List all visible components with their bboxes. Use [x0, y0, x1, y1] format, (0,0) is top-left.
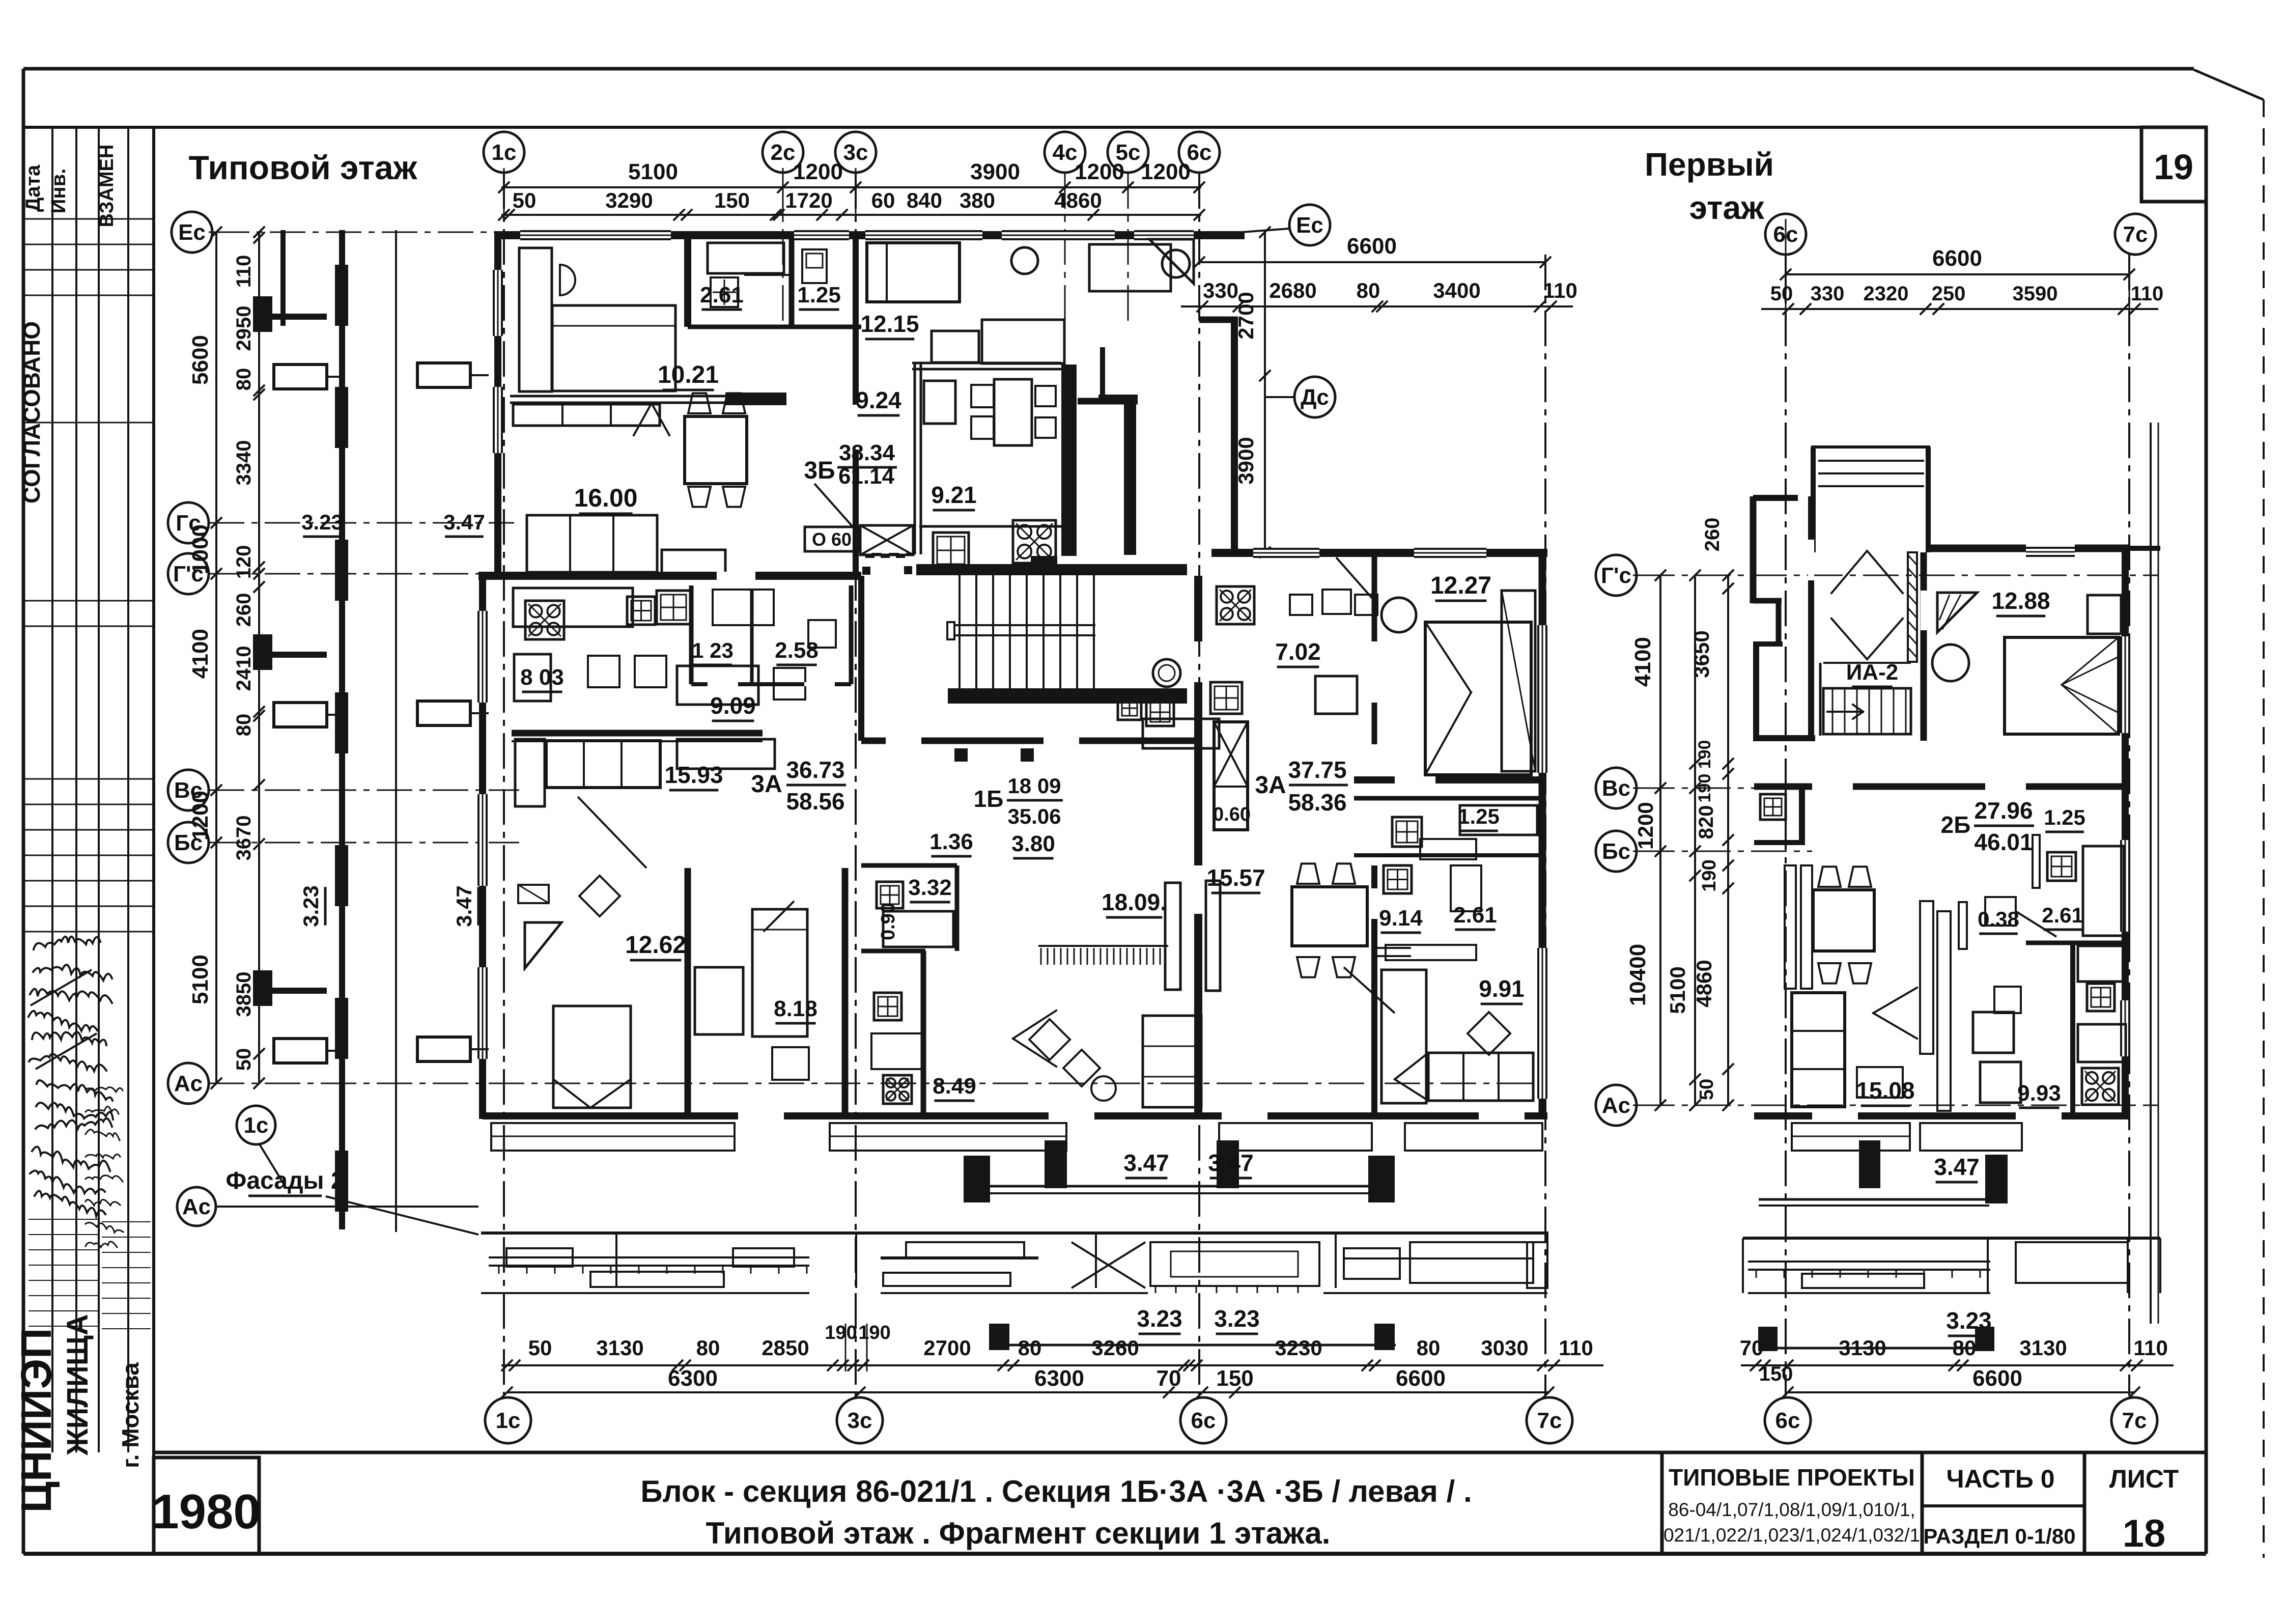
svg-text:Ac: Ac: [174, 1071, 203, 1096]
svg-text:1720: 1720: [785, 188, 832, 212]
svg-text:3.47: 3.47: [443, 510, 485, 534]
svg-text:58.56: 58.56: [786, 788, 844, 815]
svg-text:9.93: 9.93: [2017, 1081, 2061, 1106]
svg-text:110: 110: [1559, 1336, 1593, 1360]
svg-text:330: 330: [1811, 283, 1845, 305]
svg-text:12.15: 12.15: [860, 311, 919, 337]
svg-text:5100: 5100: [1666, 966, 1689, 1014]
svg-text:2.58: 2.58: [775, 638, 819, 663]
svg-text:2.61: 2.61: [1453, 903, 1497, 928]
svg-text:Г'c: Г'c: [1601, 563, 1631, 588]
svg-text:50: 50: [528, 1336, 552, 1360]
svg-text:120: 120: [233, 545, 255, 579]
svg-text:19: 19: [2154, 147, 2193, 187]
svg-text:820: 820: [1695, 805, 1717, 839]
svg-text:86-04/1,07/1,08/1,09/1,010/1,: 86-04/1,07/1,08/1,09/1,010/1,: [1668, 1499, 1915, 1520]
svg-text:2320: 2320: [1864, 283, 1909, 305]
svg-text:3650: 3650: [1689, 630, 1713, 678]
svg-text:2.61: 2.61: [700, 283, 744, 307]
svg-text:ЖИЛИЩА: ЖИЛИЩА: [61, 1314, 94, 1455]
svg-text:46.01: 46.01: [1974, 829, 2033, 855]
svg-text:12.88: 12.88: [1991, 587, 2050, 614]
svg-text:ЛИСТ: ЛИСТ: [2109, 1465, 2179, 1493]
svg-text:6600: 6600: [1347, 234, 1397, 259]
svg-text:2.61: 2.61: [2042, 903, 2083, 927]
svg-text:6600: 6600: [1396, 1366, 1446, 1391]
svg-text:1Б: 1Б: [974, 786, 1004, 812]
svg-text:12.27: 12.27: [1430, 572, 1491, 599]
svg-text:3130: 3130: [2019, 1336, 2067, 1360]
svg-text:1.36: 1.36: [929, 829, 973, 854]
svg-text:9.21: 9.21: [931, 482, 977, 508]
svg-text:1 23: 1 23: [692, 638, 734, 662]
svg-text:1.25: 1.25: [2044, 805, 2085, 829]
svg-text:250: 250: [1932, 283, 1966, 305]
svg-text:6600: 6600: [1972, 1366, 2022, 1391]
svg-text:1980: 1980: [152, 1485, 261, 1539]
svg-text:Дата: Дата: [22, 164, 44, 212]
svg-text:60: 60: [871, 188, 895, 212]
svg-text:150: 150: [1759, 1363, 1793, 1385]
svg-text:Ac: Ac: [182, 1194, 211, 1219]
svg-text:1.25: 1.25: [1458, 804, 1500, 828]
svg-text:0.38: 0.38: [1978, 907, 2019, 931]
svg-text:7c: 7c: [2123, 222, 2148, 247]
svg-text:6300: 6300: [1034, 1366, 1084, 1391]
svg-text:15.08: 15.08: [1856, 1077, 1914, 1104]
svg-text:3А: 3А: [1255, 772, 1286, 799]
svg-text:15.93: 15.93: [664, 762, 723, 788]
svg-text:Бc: Бc: [1602, 839, 1630, 864]
svg-text:80: 80: [1417, 1336, 1441, 1360]
svg-text:8.49: 8.49: [933, 1074, 976, 1099]
svg-text:9.91: 9.91: [1479, 975, 1525, 1002]
svg-text:330: 330: [1203, 278, 1238, 302]
svg-text:4860: 4860: [1054, 188, 1102, 212]
svg-text:70: 70: [1157, 1366, 1181, 1391]
svg-text:18 09: 18 09: [1007, 774, 1061, 798]
svg-text:3030: 3030: [1481, 1336, 1528, 1360]
svg-text:18.09.: 18.09.: [1102, 889, 1167, 915]
svg-text:3Б: 3Б: [804, 457, 835, 484]
svg-text:27.96: 27.96: [1974, 797, 2033, 824]
svg-text:110: 110: [233, 255, 255, 288]
svg-text:2c: 2c: [771, 140, 796, 165]
svg-text:150: 150: [714, 188, 750, 212]
svg-text:260: 260: [233, 593, 255, 627]
svg-text:Инв.: Инв.: [47, 169, 70, 214]
svg-text:2Б: 2Б: [1941, 811, 1971, 838]
svg-text:1200: 1200: [793, 159, 843, 184]
svg-text:150: 150: [1216, 1366, 1253, 1391]
svg-text:3230: 3230: [1275, 1336, 1322, 1360]
svg-text:0.90: 0.90: [878, 903, 899, 940]
svg-text:110: 110: [2131, 283, 2164, 305]
svg-text:Ec: Ec: [178, 220, 206, 245]
svg-text:этаж: этаж: [1689, 189, 1764, 226]
svg-text:3А: 3А: [751, 771, 782, 798]
svg-text:РАЗДЕЛ 0-1/80: РАЗДЕЛ 0-1/80: [1923, 1524, 2075, 1548]
svg-text:ТИПОВЫЕ ПРОЕКТЫ: ТИПОВЫЕ ПРОЕКТЫ: [1669, 1464, 1915, 1491]
svg-text:2700: 2700: [923, 1336, 971, 1360]
svg-text:6600: 6600: [1932, 246, 1982, 271]
svg-text:10.21: 10.21: [658, 361, 719, 388]
svg-text:840: 840: [907, 188, 942, 212]
svg-text:3260: 3260: [1091, 1336, 1139, 1360]
svg-text:3.23: 3.23: [1214, 1305, 1260, 1332]
svg-text:1c: 1c: [492, 140, 517, 165]
svg-text:г. Москва: г. Москва: [117, 1362, 144, 1468]
svg-text:16.00: 16.00: [574, 484, 637, 512]
svg-text:5100: 5100: [188, 955, 213, 1004]
svg-text:3.47: 3.47: [1934, 1154, 1980, 1180]
svg-text:Вc: Вc: [1602, 776, 1630, 801]
svg-text:15.57: 15.57: [1206, 864, 1265, 891]
svg-text:110: 110: [1543, 278, 1577, 302]
svg-text:58.36: 58.36: [1288, 789, 1346, 816]
svg-text:80: 80: [696, 1336, 720, 1360]
svg-text:1200: 1200: [1075, 159, 1124, 184]
svg-text:3900: 3900: [970, 159, 1020, 184]
svg-text:190: 190: [825, 1322, 857, 1343]
svg-text:Фасады 2: Фасады 2: [225, 1167, 344, 1194]
svg-text:4100: 4100: [1630, 637, 1655, 687]
svg-text:50: 50: [1770, 283, 1793, 305]
svg-text:4860: 4860: [1692, 960, 1716, 1007]
svg-text:Дc: Дc: [1301, 385, 1329, 410]
svg-text:36.73: 36.73: [786, 757, 844, 783]
svg-text:ЦНИИЭП: ЦНИИЭП: [12, 1328, 60, 1513]
svg-text:ЧАСТЬ 0: ЧАСТЬ 0: [1946, 1465, 2054, 1493]
svg-text:Типовой этаж: Типовой этаж: [189, 149, 418, 186]
svg-text:3c: 3c: [848, 1408, 872, 1433]
svg-text:3.80: 3.80: [1011, 831, 1055, 856]
svg-text:38.34: 38.34: [839, 440, 895, 465]
svg-text:190: 190: [858, 1322, 890, 1343]
svg-text:3.47: 3.47: [1123, 1150, 1169, 1176]
svg-text:Первый: Первый: [1645, 146, 1774, 183]
svg-text:0.60: 0.60: [1213, 804, 1251, 825]
svg-text:9.14: 9.14: [1379, 906, 1423, 931]
svg-text:3.23: 3.23: [299, 885, 323, 927]
svg-text:3290: 3290: [605, 188, 653, 212]
svg-text:37.75: 37.75: [1288, 757, 1346, 783]
svg-text:3.32: 3.32: [908, 875, 952, 900]
svg-text:9.09: 9.09: [710, 692, 756, 719]
svg-text:СОГЛАСОВАНО: СОГЛАСОВАНО: [18, 321, 45, 503]
svg-text:2680: 2680: [1269, 278, 1316, 302]
svg-text:1200: 1200: [1633, 802, 1657, 849]
svg-text:1200: 1200: [1141, 159, 1191, 184]
svg-text:О 60: О 60: [812, 529, 852, 550]
svg-text:Блок - секция 86-021/1 . Се: Блок - секция 86-021/1 . Секция 1Б·3А ·3…: [640, 1474, 1472, 1508]
svg-text:021/1,022/1,023/1,024/1,032/1: 021/1,022/1,023/1,024/1,032/1: [1663, 1525, 1920, 1546]
svg-text:260: 260: [1701, 518, 1724, 552]
svg-text:7c: 7c: [1537, 1408, 1562, 1433]
svg-text:6300: 6300: [668, 1366, 718, 1391]
svg-text:80: 80: [233, 368, 255, 391]
svg-text:50: 50: [233, 1048, 255, 1071]
svg-text:6c: 6c: [1191, 1408, 1216, 1433]
svg-text:18: 18: [2123, 1512, 2166, 1555]
svg-text:80: 80: [233, 714, 255, 737]
svg-text:4c: 4c: [1053, 140, 1078, 165]
svg-text:1.25: 1.25: [797, 283, 841, 307]
svg-text:ВЗАМЕН: ВЗАМЕН: [96, 145, 118, 228]
svg-text:61.14: 61.14: [838, 464, 895, 489]
svg-text:50: 50: [1696, 1079, 1717, 1100]
svg-text:8.18: 8.18: [774, 996, 817, 1021]
svg-text:3130: 3130: [596, 1336, 643, 1360]
svg-text:6c: 6c: [1775, 1408, 1800, 1433]
svg-text:2410: 2410: [233, 646, 255, 691]
svg-text:3c: 3c: [843, 140, 868, 165]
svg-text:80: 80: [1018, 1336, 1042, 1360]
svg-text:Ec: Ec: [1296, 213, 1323, 238]
svg-text:5100: 5100: [628, 159, 678, 184]
svg-text:3670: 3670: [233, 816, 255, 861]
svg-text:5600: 5600: [188, 335, 213, 385]
svg-text:7c: 7c: [2122, 1408, 2147, 1433]
svg-text:1200: 1200: [188, 791, 213, 841]
svg-text:190 190: 190 190: [1695, 740, 1714, 803]
svg-text:1000: 1000: [188, 524, 213, 574]
svg-text:3.23: 3.23: [301, 510, 343, 534]
svg-text:Типовой этаж . Фрагмент с: Типовой этаж . Фрагмент секции 1 этажа.: [706, 1516, 1331, 1550]
svg-text:50: 50: [513, 188, 537, 212]
svg-text:3590: 3590: [2013, 283, 2058, 305]
svg-text:3.47: 3.47: [1208, 1150, 1254, 1176]
svg-text:2950: 2950: [233, 306, 255, 351]
svg-text:380: 380: [960, 188, 995, 212]
svg-text:3850: 3850: [233, 972, 255, 1017]
svg-text:3400: 3400: [1433, 278, 1480, 302]
svg-text:12.62: 12.62: [625, 932, 686, 959]
svg-text:10400: 10400: [1625, 944, 1650, 1006]
svg-text:3.23: 3.23: [1137, 1305, 1182, 1332]
svg-text:2850: 2850: [762, 1336, 809, 1360]
svg-text:3.47: 3.47: [452, 885, 476, 927]
svg-text:1c: 1c: [496, 1408, 521, 1433]
svg-text:4100: 4100: [188, 629, 213, 679]
svg-text:190: 190: [1699, 859, 1720, 891]
svg-text:3340: 3340: [233, 440, 255, 486]
svg-text:Ac: Ac: [1602, 1093, 1630, 1118]
svg-text:35.06: 35.06: [1007, 804, 1061, 828]
svg-text:8 03: 8 03: [520, 665, 564, 690]
svg-text:1c: 1c: [244, 1113, 269, 1138]
svg-text:7.02: 7.02: [1275, 638, 1321, 665]
svg-text:9.24: 9.24: [856, 387, 901, 413]
svg-text:110: 110: [2133, 1336, 2168, 1360]
svg-text:80: 80: [1357, 278, 1380, 302]
